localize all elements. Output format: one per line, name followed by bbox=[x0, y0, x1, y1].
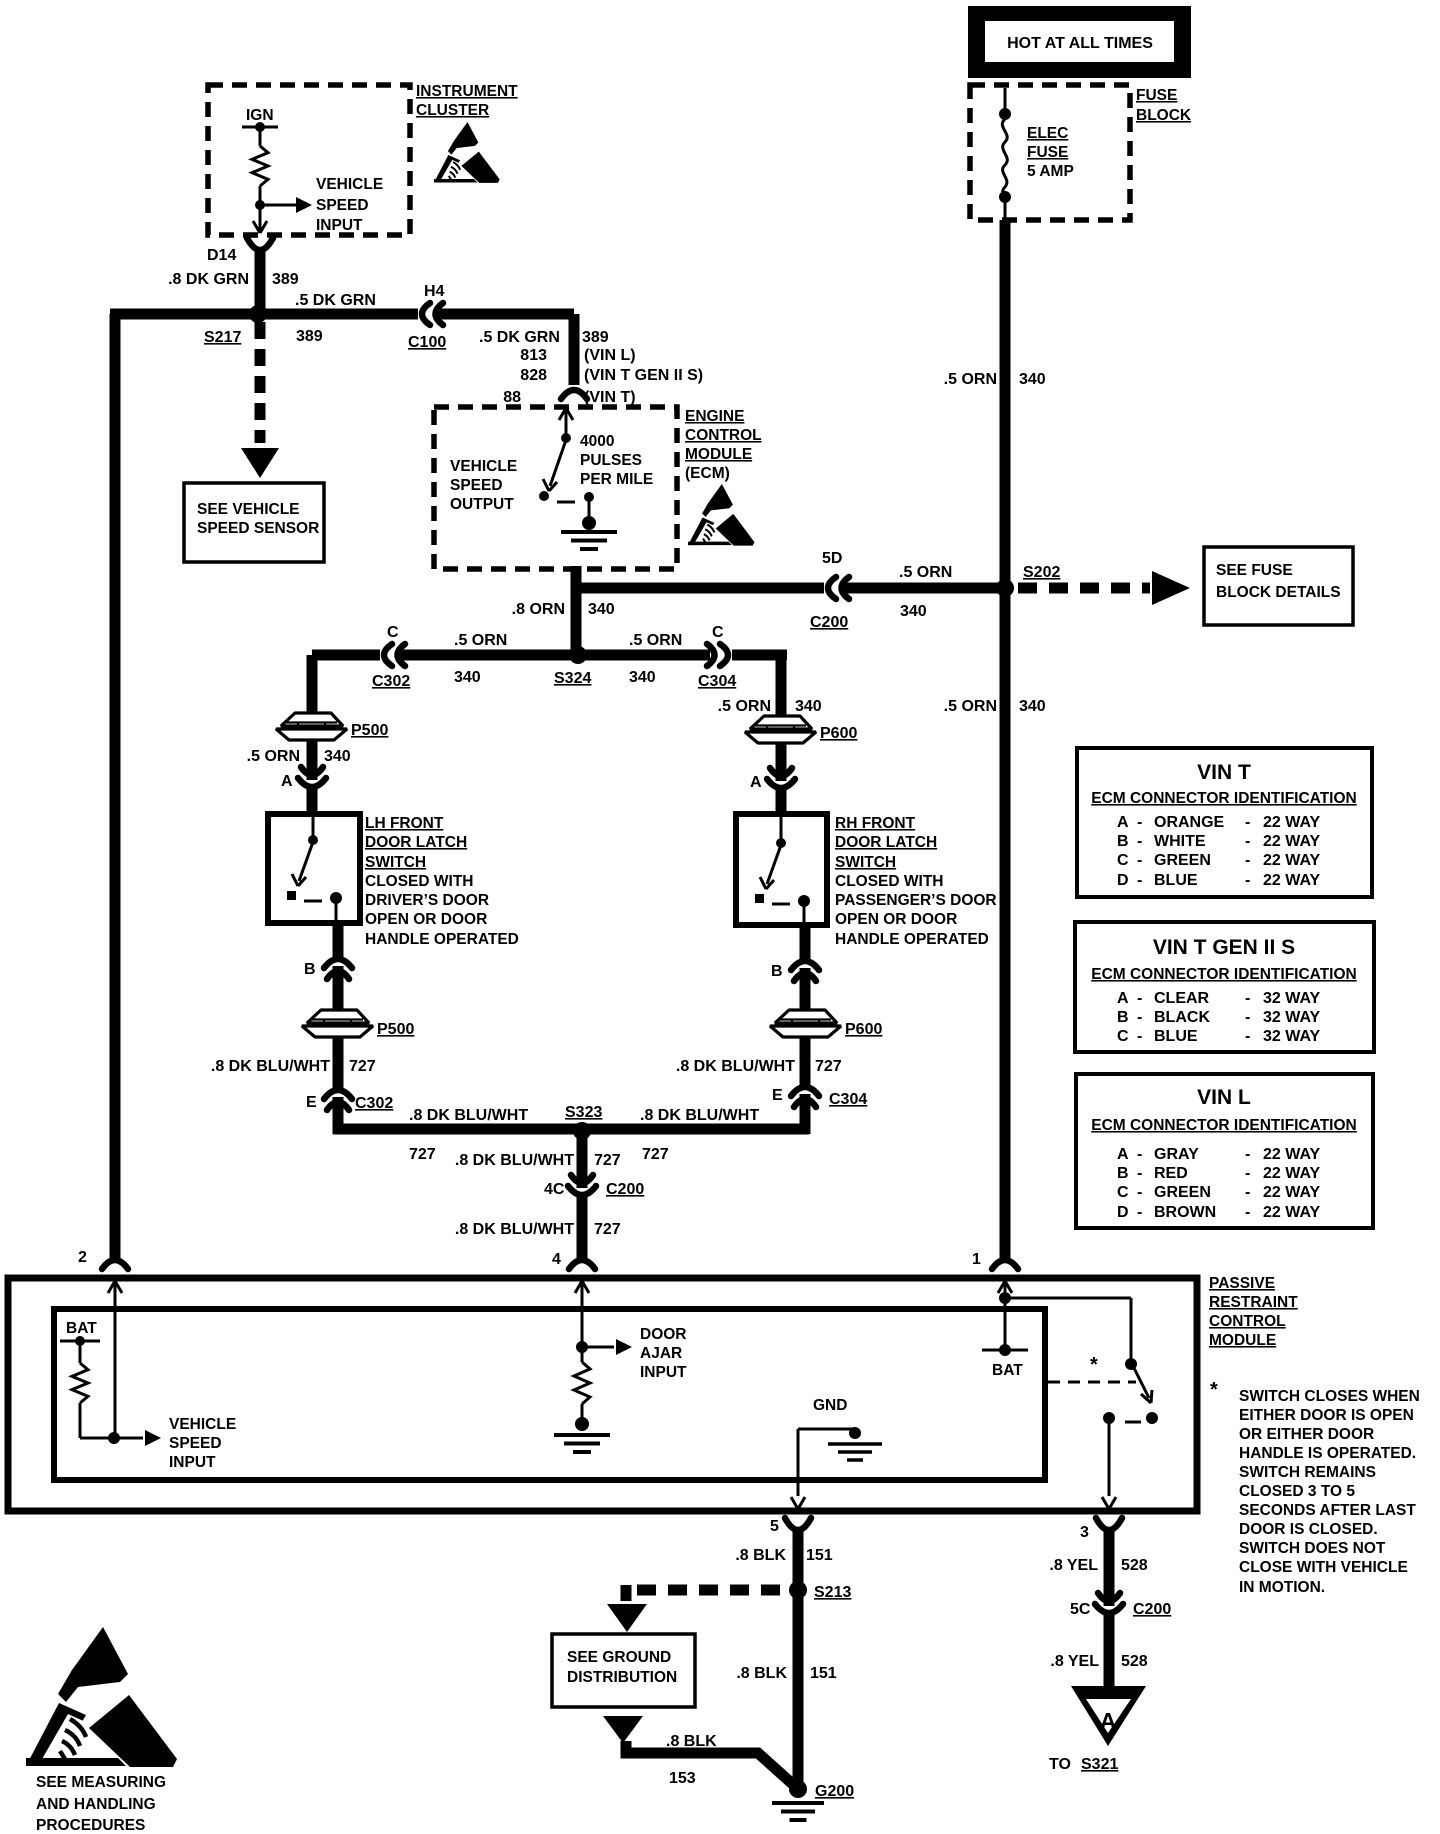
wire 340 S324 horizontal left bbox=[312, 650, 573, 661]
svg-text:5C: 5C bbox=[1070, 1601, 1091, 1618]
svg-text:.8 BLK: .8 BLK bbox=[736, 1665, 787, 1682]
svg-text:CLOSED 3 TO 5: CLOSED 3 TO 5 bbox=[1239, 1483, 1355, 1500]
label .8 ORN 340 (S324 drop) bbox=[512, 601, 615, 618]
fuse block dashed box bbox=[970, 85, 1130, 220]
connector C200 4C bbox=[568, 1175, 596, 1258]
label 813 (VIN L) bbox=[520, 347, 635, 364]
svg-text:C: C bbox=[1117, 852, 1129, 869]
label S324 bbox=[554, 670, 591, 687]
svg-text:HANDLE OPERATED: HANDLE OPERATED bbox=[365, 931, 519, 948]
svg-text:E: E bbox=[306, 1094, 317, 1111]
svg-text:4000: 4000 bbox=[580, 433, 614, 450]
label 4000 PULSES PER MILE bbox=[580, 433, 653, 488]
label * (switch) bbox=[1090, 1354, 1098, 1376]
wire 727 bottom horizontal bbox=[333, 1124, 809, 1134]
svg-text:389: 389 bbox=[296, 328, 323, 345]
svg-text:MODULE: MODULE bbox=[685, 446, 752, 463]
svg-text:727: 727 bbox=[642, 1146, 669, 1163]
svg-text:PROCEDURES: PROCEDURES bbox=[36, 1817, 145, 1834]
svg-text:CLUSTER: CLUSTER bbox=[416, 102, 489, 119]
svg-text:C: C bbox=[387, 624, 399, 641]
BAT terminal (left) bbox=[60, 1336, 100, 1346]
svg-text:.5 DK GRN: .5 DK GRN bbox=[295, 292, 376, 309]
label TO S321 bbox=[1049, 1756, 1118, 1773]
PRCM switch feed line bbox=[1005, 1298, 1131, 1364]
svg-text:151: 151 bbox=[810, 1665, 837, 1682]
wire 727 LH down bbox=[333, 1037, 344, 1090]
off-page triangle A to S321 bbox=[1071, 1686, 1146, 1746]
connector C304 (pin C) bbox=[707, 644, 728, 666]
svg-text:GRAY: GRAY bbox=[1154, 1146, 1199, 1163]
wire 153 to G200 bbox=[626, 1741, 797, 1788]
svg-text:PER MILE: PER MILE bbox=[580, 471, 653, 488]
connector C302 pin E bbox=[324, 1090, 352, 1134]
svg-text:ELEC: ELEC bbox=[1027, 125, 1068, 142]
table VIN T GEN II S header bbox=[1091, 966, 1357, 983]
svg-text:727: 727 bbox=[815, 1058, 842, 1075]
box SEE FUSE BLOCK DETAILS bbox=[1204, 547, 1353, 625]
svg-text:BLOCK DETAILS: BLOCK DETAILS bbox=[1216, 584, 1341, 601]
svg-text:P500: P500 bbox=[377, 1021, 414, 1038]
grommet P500 (upper) bbox=[276, 713, 347, 740]
svg-text:C: C bbox=[712, 624, 724, 641]
svg-text:B: B bbox=[304, 961, 316, 978]
box RH door latch switch bbox=[736, 814, 827, 925]
svg-text:S217: S217 bbox=[204, 329, 241, 346]
svg-text:-: - bbox=[1245, 1146, 1250, 1163]
svg-text:A: A bbox=[1117, 990, 1129, 1007]
wire 389 left vertical bbox=[110, 314, 121, 1258]
svg-text:ECM CONNECTOR IDENTIFICATION: ECM CONNECTOR IDENTIFICATION bbox=[1091, 966, 1357, 983]
svg-text:22 WAY: 22 WAY bbox=[1263, 833, 1321, 850]
label H4 bbox=[424, 283, 445, 300]
label C100 bbox=[408, 334, 446, 351]
wire down to ECM bbox=[569, 314, 580, 385]
connector B (LH) bbox=[324, 959, 352, 1010]
wire to connector A (RH) bbox=[776, 743, 787, 781]
svg-text:E: E bbox=[772, 1087, 783, 1104]
svg-text:22 WAY: 22 WAY bbox=[1263, 1204, 1321, 1221]
table VIN T GEN II S title bbox=[1153, 936, 1295, 959]
svg-text:WHITE: WHITE bbox=[1154, 833, 1206, 850]
splice S324 bbox=[569, 646, 587, 664]
svg-text:RESTRAINT: RESTRAINT bbox=[1209, 1294, 1298, 1311]
svg-text:SEE MEASURING: SEE MEASURING bbox=[36, 1774, 166, 1791]
svg-text:INPUT: INPUT bbox=[316, 217, 363, 234]
svg-text:PASSENGER’S DOOR: PASSENGER’S DOOR bbox=[835, 892, 997, 909]
table VIN L title bbox=[1197, 1086, 1251, 1109]
svg-text:.8 DK GRN: .8 DK GRN bbox=[168, 271, 249, 288]
svg-text:5: 5 bbox=[770, 1518, 779, 1535]
label .8 BLK 153 bbox=[666, 1733, 717, 1787]
label .8 YEL 528 (lower) bbox=[1050, 1653, 1147, 1670]
svg-text:C: C bbox=[1117, 1028, 1129, 1045]
label PASSIVE RESTRAINT CONTROL MODULE bbox=[1209, 1275, 1298, 1349]
svg-text:88: 88 bbox=[503, 389, 521, 406]
svg-text:-: - bbox=[1245, 852, 1250, 869]
label .8 DK BLU/WHT 727 (right run) bbox=[640, 1107, 759, 1163]
ground (door ajar) bbox=[554, 1417, 610, 1452]
svg-text:ECM CONNECTOR IDENTIFICATION: ECM CONNECTOR IDENTIFICATION bbox=[1091, 1117, 1357, 1134]
LH switch contact input bbox=[308, 817, 318, 845]
table VIN L rows bbox=[1117, 1146, 1321, 1221]
svg-text:SPEED: SPEED bbox=[316, 197, 369, 214]
splice S217 bbox=[249, 305, 267, 323]
svg-text:OPEN OR DOOR: OPEN OR DOOR bbox=[365, 911, 487, 928]
svg-text:HOT AT ALL TIMES: HOT AT ALL TIMES bbox=[1007, 35, 1153, 52]
svg-text:151: 151 bbox=[806, 1547, 833, 1564]
wire 340 horizontal to S202 bbox=[571, 583, 1005, 594]
svg-text:22 WAY: 22 WAY bbox=[1263, 872, 1321, 889]
svg-text:-: - bbox=[1245, 1165, 1250, 1182]
svg-text:A: A bbox=[281, 773, 293, 790]
svg-text:S323: S323 bbox=[565, 1104, 602, 1121]
label LH FRONT DOOR LATCH SWITCH ... bbox=[365, 815, 519, 948]
svg-text:S213: S213 bbox=[814, 1584, 851, 1601]
svg-text:22 WAY: 22 WAY bbox=[1263, 1184, 1321, 1201]
svg-text:(VIN T GEN II S): (VIN T GEN II S) bbox=[584, 367, 703, 384]
svg-text:LH FRONT: LH FRONT bbox=[365, 815, 444, 832]
svg-text:340: 340 bbox=[1019, 371, 1046, 388]
label .5 ORN 340 (main right wire) bbox=[944, 698, 1046, 715]
svg-text:.8 YEL: .8 YEL bbox=[1049, 1557, 1098, 1574]
svg-text:SEE GROUND: SEE GROUND bbox=[567, 1649, 671, 1666]
ECM dashed box bbox=[434, 407, 677, 569]
svg-text:CLEAR: CLEAR bbox=[1154, 990, 1210, 1007]
label C304 bbox=[698, 673, 736, 690]
label S213 bbox=[814, 1584, 851, 1601]
svg-text:.8 DK BLU/WHT: .8 DK BLU/WHT bbox=[640, 1107, 759, 1124]
svg-text:S324: S324 bbox=[554, 670, 591, 687]
svg-text:340: 340 bbox=[629, 669, 656, 686]
svg-text:340: 340 bbox=[1019, 698, 1046, 715]
svg-text:CLOSED WITH: CLOSED WITH bbox=[835, 873, 944, 890]
svg-text:.8 ORN: .8 ORN bbox=[512, 601, 565, 618]
label FUSE BLOCK bbox=[1136, 87, 1192, 124]
ground G200 bbox=[772, 1780, 824, 1820]
ECM speed output switch input arrow bbox=[559, 408, 573, 443]
svg-text:AND HANDLING: AND HANDLING bbox=[36, 1796, 156, 1813]
svg-text:SEE VEHICLE: SEE VEHICLE bbox=[197, 501, 300, 518]
svg-text:B: B bbox=[1117, 1009, 1129, 1026]
label SEE FUSE BLOCK DETAILS bbox=[1216, 562, 1341, 601]
pin 1 connector bbox=[972, 1251, 1018, 1269]
wire 340 right branch down bbox=[776, 655, 787, 715]
svg-text:C304: C304 bbox=[829, 1091, 867, 1108]
wire RH switch to B bbox=[800, 925, 811, 961]
svg-text:153: 153 bbox=[669, 1770, 696, 1787]
wire to D14 with arrowhead bbox=[253, 205, 267, 233]
connector C304 pin E bbox=[791, 1087, 819, 1134]
svg-text:BROWN: BROWN bbox=[1154, 1204, 1216, 1221]
svg-text:389: 389 bbox=[582, 329, 609, 346]
svg-text:OR EITHER DOOR: OR EITHER DOOR bbox=[1239, 1426, 1374, 1443]
svg-text:D: D bbox=[1117, 1204, 1129, 1221]
svg-text:-: - bbox=[1137, 1204, 1142, 1221]
svg-text:GND: GND bbox=[813, 1397, 847, 1414]
svg-text:SPEED: SPEED bbox=[450, 477, 503, 494]
svg-text:OPEN OR DOOR: OPEN OR DOOR bbox=[835, 911, 957, 928]
svg-text:P600: P600 bbox=[845, 1021, 882, 1038]
connector 88 VIN T (ECM input) bbox=[561, 390, 587, 399]
ESD symbol (ECM) bbox=[688, 484, 754, 546]
box SEE VEHICLE SPEED SENSOR bbox=[184, 483, 324, 562]
wire 727 S323 down bbox=[577, 1131, 588, 1188]
label VEHICLE SPEED INPUT (cluster) bbox=[316, 176, 383, 234]
dashed wire S213 to ground distribution bbox=[626, 1585, 792, 1601]
svg-text:GREEN: GREEN bbox=[1154, 1184, 1211, 1201]
svg-text:.8 DK BLU/WHT: .8 DK BLU/WHT bbox=[409, 1107, 528, 1124]
svg-text:340: 340 bbox=[324, 748, 351, 765]
pin 2 input line bbox=[108, 1281, 122, 1438]
svg-text:-: - bbox=[1245, 990, 1250, 1007]
svg-text:FUSE: FUSE bbox=[1027, 144, 1068, 161]
svg-text:BAT: BAT bbox=[992, 1362, 1023, 1379]
svg-text:EITHER DOOR IS OPEN: EITHER DOOR IS OPEN bbox=[1239, 1407, 1414, 1424]
label P500 (upper) bbox=[351, 722, 388, 739]
label .5 DK GRN 389 (left of C100) bbox=[295, 292, 376, 345]
svg-text:727: 727 bbox=[594, 1152, 621, 1169]
wire 340 drop to S324 bbox=[571, 588, 582, 655]
connector C100 H4 bbox=[422, 303, 443, 325]
svg-text:CLOSE WITH VEHICLE: CLOSE WITH VEHICLE bbox=[1239, 1559, 1408, 1576]
label E (C304) bbox=[772, 1087, 783, 1104]
LH switch dash bbox=[304, 900, 322, 903]
svg-text:INPUT: INPUT bbox=[169, 1454, 216, 1471]
wire 727 RH down bbox=[800, 1037, 811, 1087]
svg-text:C302: C302 bbox=[372, 673, 410, 690]
svg-text:RED: RED bbox=[1154, 1165, 1188, 1182]
label C302 bbox=[372, 673, 410, 690]
svg-text:.5 ORN: .5 ORN bbox=[944, 698, 997, 715]
svg-text:22 WAY: 22 WAY bbox=[1263, 852, 1321, 869]
arrow into SEE FUSE BLOCK DETAILS bbox=[1152, 571, 1190, 605]
svg-text:-: - bbox=[1245, 814, 1250, 831]
label .5 ORN 340 (between 5D and S202) bbox=[899, 564, 952, 620]
svg-text:.5 ORN: .5 ORN bbox=[247, 748, 300, 765]
svg-text:5D: 5D bbox=[822, 550, 842, 567]
label .8 DK BLU/WHT 727 (left run) bbox=[409, 1107, 528, 1163]
svg-text:*: * bbox=[1210, 1379, 1218, 1401]
label DOOR AJAR INPUT bbox=[640, 1326, 687, 1381]
arrow out of SEE GROUND DISTRIBUTION bbox=[603, 1716, 643, 1743]
label B (RH) bbox=[771, 963, 783, 980]
ESD symbol (measuring and handling) bbox=[26, 1627, 177, 1767]
arrow into SEE VEHICLE SPEED SENSOR bbox=[241, 448, 279, 478]
table VIN L header bbox=[1091, 1117, 1357, 1134]
table VIN L box bbox=[1076, 1074, 1373, 1228]
svg-text:.8 DK BLU/WHT: .8 DK BLU/WHT bbox=[455, 1152, 574, 1169]
label VEHICLE SPEED INPUT (PRCM) bbox=[169, 1416, 236, 1471]
resistor (door ajar) bbox=[574, 1347, 590, 1424]
svg-text:SWITCH DOES NOT: SWITCH DOES NOT bbox=[1239, 1540, 1386, 1557]
svg-text:.5 ORN: .5 ORN bbox=[629, 632, 682, 649]
svg-text:340: 340 bbox=[900, 603, 927, 620]
svg-text:-: - bbox=[1137, 814, 1142, 831]
svg-text:VEHICLE: VEHICLE bbox=[169, 1416, 236, 1433]
wire 151 S213 to G200 bbox=[793, 1590, 804, 1785]
splice S213 bbox=[789, 1581, 807, 1599]
svg-text:PASSIVE: PASSIVE bbox=[1209, 1275, 1275, 1292]
svg-text:C200: C200 bbox=[810, 614, 848, 631]
grommet P600 (upper) bbox=[745, 716, 816, 743]
svg-text:VEHICLE: VEHICLE bbox=[450, 458, 517, 475]
svg-text:VEHICLE: VEHICLE bbox=[316, 176, 383, 193]
PRCM outer box bbox=[8, 1278, 1197, 1511]
svg-text:BLUE: BLUE bbox=[1154, 1028, 1198, 1045]
svg-text:D14: D14 bbox=[207, 247, 236, 264]
label IGN bbox=[246, 107, 274, 124]
svg-text:CONTROL: CONTROL bbox=[685, 427, 762, 444]
svg-text:TO: TO bbox=[1049, 1756, 1071, 1773]
label .8 BLK 151 (pin 5) bbox=[735, 1547, 832, 1564]
pin 1 input line bbox=[998, 1281, 1012, 1348]
svg-text:A: A bbox=[1117, 814, 1129, 831]
svg-text:B: B bbox=[771, 963, 783, 980]
wire LH switch to B bbox=[333, 923, 344, 959]
svg-text:GREEN: GREEN bbox=[1154, 852, 1211, 869]
wire 389 horizontal bbox=[110, 309, 574, 320]
table VIN T box bbox=[1077, 748, 1372, 897]
svg-text:DOOR IS CLOSED.: DOOR IS CLOSED. bbox=[1239, 1521, 1378, 1538]
label .8 DK GRN 389 bbox=[168, 271, 299, 288]
label ELEC FUSE 5 AMP bbox=[1027, 125, 1074, 180]
GND stub bbox=[798, 1427, 861, 1496]
svg-text:VIN T: VIN T bbox=[1197, 761, 1251, 784]
wire 340 left branch down bbox=[307, 655, 318, 712]
svg-text:ECM CONNECTOR IDENTIFICATION: ECM CONNECTOR IDENTIFICATION bbox=[1091, 790, 1357, 807]
label C200 (4C) bbox=[606, 1181, 644, 1198]
svg-text:IN MOTION.: IN MOTION. bbox=[1239, 1579, 1325, 1596]
wire to connector A (LH) bbox=[307, 740, 318, 780]
svg-text:OUTPUT: OUTPUT bbox=[450, 496, 514, 513]
svg-text:.8 BLK: .8 BLK bbox=[666, 1733, 717, 1750]
svg-text:.8 DK BLU/WHT: .8 DK BLU/WHT bbox=[211, 1058, 330, 1075]
table VIN T rows bbox=[1117, 814, 1321, 889]
table VIN T header bbox=[1091, 790, 1357, 807]
svg-text:SPEED: SPEED bbox=[169, 1435, 222, 1452]
arrow DOOR AJAR INPUT bbox=[582, 1339, 632, 1355]
label 5D bbox=[822, 550, 842, 567]
svg-text:BLUE: BLUE bbox=[1154, 872, 1198, 889]
svg-text:340: 340 bbox=[454, 669, 481, 686]
svg-text:1: 1 bbox=[972, 1251, 981, 1268]
label .8 DK BLU/WHT 727 (below C200) bbox=[455, 1221, 621, 1238]
label B (LH) bbox=[304, 961, 316, 978]
label A (LH) bbox=[281, 773, 293, 790]
svg-text:S321: S321 bbox=[1081, 1756, 1118, 1773]
ground (inside ECM) bbox=[561, 516, 617, 549]
box LH door latch switch bbox=[268, 814, 360, 923]
connector C200 5C bbox=[1095, 1593, 1123, 1688]
svg-text:SWITCH: SWITCH bbox=[835, 854, 896, 871]
svg-text:528: 528 bbox=[1121, 1557, 1148, 1574]
label VEHICLE SPEED OUTPUT bbox=[450, 458, 517, 513]
RH switch contact input bbox=[776, 817, 786, 848]
svg-text:-: - bbox=[1137, 990, 1142, 1007]
pin 3 output arrow bbox=[1102, 1497, 1116, 1509]
label S217 bbox=[204, 329, 241, 346]
svg-text:(VIN L): (VIN L) bbox=[584, 347, 636, 364]
pin 5 connector bbox=[770, 1518, 811, 1590]
svg-text:ENGINE: ENGINE bbox=[685, 408, 744, 425]
pin 4 connector bbox=[552, 1251, 595, 1269]
svg-text:-: - bbox=[1137, 872, 1142, 889]
svg-text:-: - bbox=[1245, 1184, 1250, 1201]
svg-text:C: C bbox=[1117, 1184, 1129, 1201]
svg-text:RH FRONT: RH FRONT bbox=[835, 815, 916, 832]
label BAT (right) bbox=[992, 1362, 1023, 1379]
svg-text:.5 ORN: .5 ORN bbox=[454, 632, 507, 649]
svg-text:.5 ORN: .5 ORN bbox=[899, 564, 952, 581]
table VIN T title bbox=[1197, 761, 1251, 784]
svg-text:AJAR: AJAR bbox=[640, 1345, 682, 1362]
label G200 bbox=[815, 1783, 854, 1800]
svg-text:BLACK: BLACK bbox=[1154, 1009, 1210, 1026]
label INSTRUMENT CLUSTER bbox=[416, 83, 518, 119]
label BAT (left) bbox=[66, 1320, 97, 1337]
svg-text:-: - bbox=[1137, 833, 1142, 850]
svg-text:.5 ORN: .5 ORN bbox=[944, 371, 997, 388]
pin 2 connector bbox=[78, 1249, 128, 1269]
label C (C302) bbox=[387, 624, 399, 641]
label .8 BLK 151 (lower) bbox=[736, 1665, 836, 1682]
svg-text:727: 727 bbox=[409, 1146, 436, 1163]
svg-text:C302: C302 bbox=[355, 1095, 393, 1112]
splice S323 bbox=[573, 1122, 591, 1140]
svg-text:-: - bbox=[1137, 1009, 1142, 1026]
ECM switch contact dash bbox=[557, 501, 575, 504]
svg-text:(VIN T): (VIN T) bbox=[584, 389, 636, 406]
node vehicle speed input (cluster) bbox=[255, 200, 265, 210]
svg-text:-: - bbox=[1245, 833, 1250, 850]
svg-text:BAT: BAT bbox=[66, 1320, 97, 1337]
svg-text:C100: C100 bbox=[408, 334, 446, 351]
IGN terminal bbox=[242, 122, 278, 132]
LH switch arm bbox=[287, 842, 313, 900]
svg-text:813: 813 bbox=[520, 347, 547, 364]
dashed line to switch bbox=[1048, 1381, 1136, 1384]
svg-text:HANDLE OPERATED: HANDLE OPERATED bbox=[835, 931, 989, 948]
wire 340 S324 horizontal right bbox=[584, 650, 787, 661]
label 828 (VIN T GEN II S) bbox=[520, 367, 703, 384]
svg-text:A: A bbox=[750, 774, 762, 791]
label .8 YEL 528 (pin 3) bbox=[1049, 1557, 1147, 1574]
dashed wire S202 to fuse details bbox=[1018, 583, 1150, 594]
svg-text:.8 DK BLU/WHT: .8 DK BLU/WHT bbox=[455, 1221, 574, 1238]
svg-text:B: B bbox=[1117, 1165, 1129, 1182]
svg-text:(ECM): (ECM) bbox=[685, 465, 730, 482]
box SEE GROUND DISTRIBUTION bbox=[552, 1634, 695, 1707]
label 4C bbox=[544, 1181, 565, 1198]
svg-text:CONTROL: CONTROL bbox=[1209, 1313, 1286, 1330]
ECM switch right contact bbox=[584, 492, 594, 523]
svg-text:SWITCH REMAINS: SWITCH REMAINS bbox=[1239, 1464, 1376, 1481]
svg-text:G200: G200 bbox=[815, 1783, 854, 1800]
label SEE VEHICLE SPEED SENSOR bbox=[197, 501, 319, 537]
svg-text:SEE FUSE: SEE FUSE bbox=[1216, 562, 1293, 579]
RH switch output contact bbox=[798, 895, 810, 922]
svg-text:MODULE: MODULE bbox=[1209, 1332, 1276, 1349]
label SEE MEASURING AND HANDLING PROCEDURES bbox=[36, 1774, 166, 1834]
svg-text:-: - bbox=[1245, 1204, 1250, 1221]
label .5 ORN 340 (right of S324) bbox=[629, 632, 682, 686]
svg-text:.8 BLK: .8 BLK bbox=[735, 1547, 786, 1564]
svg-text:-: - bbox=[1137, 852, 1142, 869]
svg-text:-: - bbox=[1137, 1184, 1142, 1201]
svg-text:IGN: IGN bbox=[246, 107, 274, 124]
instrument cluster dashed box bbox=[208, 85, 410, 235]
